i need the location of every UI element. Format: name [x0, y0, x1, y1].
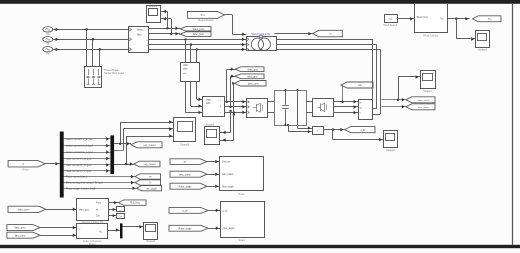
svg-text:pos_current: pos_current [143, 144, 155, 147]
svg-text:u_dc: u_dc [223, 210, 229, 212]
svg-text:Scope2: Scope2 [386, 148, 395, 152]
svg-text:Wind Turbine: Wind Turbine [423, 34, 439, 38]
svg-text:PQ: PQ [99, 231, 102, 233]
svg-text:rotor current ir_a (pu): rotor current ir_a (pu) [66, 157, 91, 161]
svg-text:Magnetization: Magnetization [198, 19, 214, 22]
svg-text:Vabc_prim: Vabc_prim [14, 227, 25, 230]
svg-text:wr: wr [184, 161, 187, 164]
svg-text:Rotor: Rotor [22, 168, 28, 171]
svg-text:Scope3: Scope3 [206, 123, 215, 126]
svg-text:rotor current ir_b (pu): rotor current ir_b (pu) [66, 163, 91, 167]
svg-text:Vabc_prim: Vabc_prim [193, 28, 205, 31]
svg-text:Tm: Tm [200, 13, 205, 17]
svg-text:wm: wm [358, 84, 362, 87]
svg-text:Iabc_prim: Iabc_prim [193, 33, 204, 36]
svg-text:Electromagnetic torque Te (pu): Electromagnetic torque Te (pu) [66, 181, 103, 185]
svg-text:Qm: Qm [119, 216, 123, 218]
svg-text:Iabc: Iabc [206, 102, 211, 105]
svg-text:Series RLC Load: Series RLC Load [104, 71, 124, 75]
svg-text:Vabc_prim: Vabc_prim [18, 208, 30, 211]
svg-text:Rotor_angle: Rotor_angle [178, 185, 192, 188]
svg-text:u_dc: u_dc [182, 210, 188, 213]
svg-text:Wr: Wr [359, 102, 362, 104]
svg-text:wt: wt [96, 208, 99, 211]
svg-text:Scope5: Scope5 [180, 143, 189, 147]
svg-text:rotor_angle: rotor_angle [223, 227, 235, 230]
svg-text:neg_current: neg_current [143, 163, 156, 166]
svg-text:c: c [220, 112, 221, 114]
svg-text:wt: wt [119, 209, 122, 212]
svg-text:wm_angle: wm_angle [146, 188, 157, 190]
svg-text:Wind (m/s): Wind (m/s) [417, 17, 428, 19]
svg-text:Scope4: Scope4 [478, 48, 487, 52]
svg-text:Rotor angle thetam (rad): Rotor angle thetam (rad) [66, 186, 95, 190]
svg-text:Scope4: Scope4 [148, 4, 157, 8]
svg-text:stator current is_c (pu): stator current is_c (pu) [66, 150, 93, 154]
svg-text:Wind Speed: Wind Speed [383, 24, 397, 27]
svg-text:Scope1: Scope1 [423, 89, 432, 93]
svg-text:wr: wr [149, 176, 152, 179]
svg-text:Iabc_stator: Iabc_stator [418, 106, 429, 109]
svg-text:Rotor_angle: Rotor_angle [178, 227, 192, 230]
svg-text:Iabc: Iabc [137, 33, 143, 37]
svg-text:Stator: Stator [239, 238, 246, 242]
svg-text:Freq: Freq [96, 202, 101, 205]
svg-text:Vabc (pu): Vabc (pu) [79, 209, 89, 211]
svg-text:PLL_freq: PLL_freq [130, 202, 140, 205]
svg-text:7.0: 7.0 [388, 17, 392, 21]
svg-text:m: m [329, 33, 331, 36]
svg-text:Power: Power [89, 243, 96, 246]
svg-text:Rotor speed (wm): Rotor speed (wm) [66, 175, 87, 179]
svg-text:Grid_wr: Grid_wr [222, 161, 230, 164]
svg-text:Vabc_grid: Vabc_grid [247, 68, 258, 71]
svg-text:Iabc_grid: Iabc_grid [247, 75, 258, 78]
svg-text:Igrid_conv: Igrid_conv [248, 82, 260, 85]
svg-text:stator current is_b (pu): stator current is_b (pu) [66, 144, 93, 148]
svg-text:Qm: Qm [96, 216, 100, 218]
svg-text:Tm: Tm [488, 18, 492, 21]
svg-text:Iabc_stator: Iabc_stator [179, 173, 191, 176]
svg-text:Vabc: Vabc [137, 28, 143, 32]
svg-text:m: m [22, 163, 24, 166]
svg-text:Vabc_stator: Vabc_stator [418, 99, 430, 102]
svg-text:Tm: Tm [440, 19, 443, 21]
svg-text:Rotor angle: Rotor angle [222, 185, 235, 188]
svg-text:Iabc: Iabc [183, 67, 188, 70]
svg-text:u_dc: u_dc [360, 129, 366, 132]
svg-text:stator current is_a (pu): stator current is_a (pu) [66, 137, 93, 141]
svg-text:rotor current ir_c (pu): rotor current ir_c (pu) [66, 169, 91, 173]
svg-text:Rotor: Rotor [238, 192, 244, 196]
svg-text:Iabc_stator: Iabc_stator [222, 173, 234, 176]
svg-text:Scope6: Scope6 [146, 239, 155, 243]
svg-text:Iabc_prim: Iabc_prim [15, 234, 26, 237]
svg-text:abc: abc [359, 108, 362, 110]
